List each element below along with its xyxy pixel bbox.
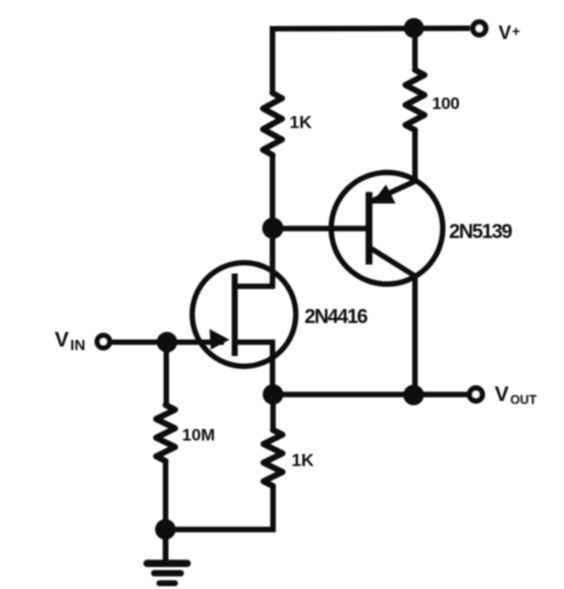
svg-text:V: V: [55, 329, 69, 352]
svg-text:IN: IN: [70, 337, 85, 354]
svg-text:OUT: OUT: [510, 393, 537, 407]
wire left rail upper (to R1): [270, 26, 276, 94]
label Vin: [55, 329, 86, 354]
ground stub: [163, 530, 169, 562]
resistor R1 1K: [263, 93, 282, 155]
svg-text:1K: 1K: [292, 450, 315, 470]
Q1 source lead: [234, 342, 273, 394]
transistor Q2 2N5139 circle: [331, 173, 443, 285]
wire Q2 collector down to Vout node: [412, 277, 418, 396]
transistor Q1 2N4416 JFET circle: [192, 263, 296, 367]
svg-text:2N5139: 2N5139: [449, 221, 512, 243]
transistor Q2 collector line: [370, 248, 416, 277]
junction dot R1/base/drain: [262, 218, 283, 239]
junction dot ground node: [155, 519, 176, 540]
junction dot Vin/gate/R3: [157, 332, 178, 353]
junction dot top (R1/R2/V+): [404, 18, 424, 38]
wire right rail to Q2 emitter: [412, 129, 418, 180]
Q1 drain lead: [234, 284, 275, 289]
Q1 gate arrowhead (N-JFET): [210, 329, 230, 350]
wire Vin vertical down to R3: [164, 342, 170, 406]
transistor Q2 base bar: [366, 192, 373, 265]
svg-text:+: +: [512, 23, 520, 39]
wire Vout rail: [273, 392, 467, 398]
transistor Q2 emitter arrowhead (PNP, points to base): [372, 185, 396, 204]
wire R3 down to ground node: [163, 460, 169, 530]
wire bottom link (ground node to R4): [165, 485, 273, 530]
ground bar 1: [147, 560, 187, 567]
wire Q1 source node down to R4: [270, 393, 276, 431]
junction dot collector/Vout: [403, 385, 424, 406]
svg-text:1K: 1K: [290, 112, 313, 132]
svg-text:2N4416: 2N4416: [305, 306, 368, 328]
terminal Vin open circle: [97, 335, 109, 347]
label Vout: [495, 383, 537, 407]
transistor Q2 emitter line: [371, 181, 416, 202]
Q1 channel bar: [232, 274, 238, 357]
Q1 gate wire from Vin: [111, 340, 224, 345]
svg-text:V: V: [499, 23, 512, 44]
svg-text:100: 100: [432, 94, 459, 113]
resistor R4 1K: [264, 430, 283, 486]
resistor R2 100: [406, 70, 425, 130]
wire base link (node between R1 and Q2 base): [273, 226, 367, 232]
wire right rail upper: [412, 26, 418, 71]
wire left rail into Q1 drain: [270, 154, 276, 288]
junction dot source/R4: [263, 384, 284, 405]
svg-text:10M: 10M: [182, 426, 215, 445]
terminal V+ open circle: [473, 22, 486, 35]
resistor R3 10M: [156, 405, 175, 461]
wire top rail V+: [270, 26, 470, 32]
ground bar 2: [154, 570, 180, 576]
label V+: [499, 23, 521, 44]
ground bar 3: [159, 580, 175, 586]
svg-text:V: V: [495, 383, 509, 406]
terminal Vout open circle: [470, 388, 483, 401]
